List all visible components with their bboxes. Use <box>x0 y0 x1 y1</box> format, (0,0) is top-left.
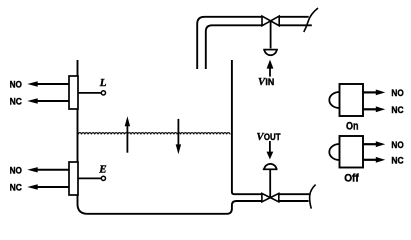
E terminal circle <box>101 176 105 180</box>
valve VIN <box>262 16 279 26</box>
E NO contact arrow <box>27 167 69 172</box>
pushbutton Off body <box>340 136 364 168</box>
VOUT actuator dome <box>263 164 278 169</box>
svg-text:On: On <box>346 120 359 132</box>
svg-text:L: L <box>99 77 107 89</box>
svg-text:VIN: VIN <box>258 77 274 88</box>
svg-text:NO: NO <box>391 88 403 99</box>
On NO contact arrow <box>363 90 385 96</box>
outlet pipe <box>279 194 310 201</box>
outlet pipe break end <box>310 185 316 209</box>
E sensing stub <box>78 177 101 179</box>
VIN pointer arrow <box>267 60 274 77</box>
rising level arrow <box>125 116 130 152</box>
Off NO contact arrow <box>363 141 385 147</box>
water level line <box>78 133 230 135</box>
svg-text:NC: NC <box>10 183 22 194</box>
svg-text:VOUT: VOUT <box>257 132 281 143</box>
VIN stem <box>270 21 272 48</box>
L sensing stub <box>78 92 101 94</box>
VOUT pointer arrow <box>267 141 274 159</box>
svg-text:NO: NO <box>391 140 403 151</box>
level switch L body <box>69 76 78 109</box>
valve VOUT <box>262 193 279 201</box>
pushbutton On body <box>340 84 364 116</box>
tank vessel <box>78 60 262 214</box>
svg-text:E: E <box>98 164 106 176</box>
svg-text:NC: NC <box>391 105 403 116</box>
VIN actuator dome <box>263 50 278 56</box>
svg-text:NO: NO <box>10 79 22 90</box>
level switch E body <box>69 162 78 195</box>
Off NC contact arrow <box>363 157 385 163</box>
falling level arrow <box>176 119 181 154</box>
E NC contact arrow <box>27 184 69 189</box>
inlet pipe <box>197 17 312 69</box>
svg-text:NC: NC <box>10 97 22 108</box>
svg-text:NO: NO <box>10 165 22 176</box>
L NO contact arrow <box>27 81 69 86</box>
svg-text:NC: NC <box>391 155 403 166</box>
svg-text:Off: Off <box>344 173 359 185</box>
pushbutton On actuator <box>329 92 339 108</box>
inlet pipe break end <box>304 8 318 32</box>
VOUT stem <box>269 169 271 197</box>
On NC contact arrow <box>363 106 385 112</box>
L NC contact arrow <box>27 98 69 103</box>
L terminal circle <box>101 91 105 95</box>
pushbutton Off actuator <box>329 144 339 160</box>
